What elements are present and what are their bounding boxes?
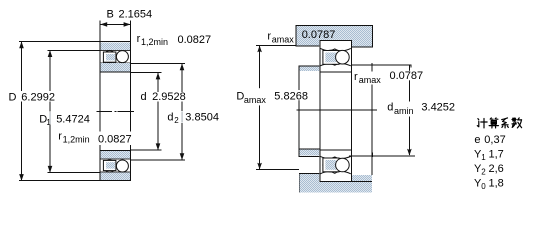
svg-text:5.8268: 5.8268 bbox=[274, 90, 308, 102]
svg-text:d: d bbox=[387, 102, 393, 114]
B arrows bbox=[100, 22, 107, 27]
svg-text:B: B bbox=[107, 9, 114, 21]
svg-text:2.9528: 2.9528 bbox=[152, 91, 186, 103]
label D 6.2992 bbox=[20, 91, 56, 102]
d extension top bbox=[131, 72, 162, 73]
svg-text:r: r bbox=[58, 131, 62, 143]
cage top bbox=[103, 52, 116, 62]
Damax arrows bbox=[257, 46, 262, 53]
Damax extension top bbox=[256, 45, 295, 46]
bore lines right view bbox=[319, 72, 320, 149]
D extension top bbox=[19, 41, 100, 42]
svg-text:6.2992: 6.2992 bbox=[21, 92, 55, 104]
d dimension line bbox=[158, 73, 159, 151]
outer raceway arc bbox=[320, 48, 351, 50]
outer raceway line top bbox=[100, 49, 130, 52]
svg-text:amax: amax bbox=[244, 95, 267, 105]
ball bbox=[336, 50, 350, 64]
cage bottom bbox=[103, 160, 116, 170]
svg-text:amax: amax bbox=[272, 34, 295, 44]
bearing inner-ring bottom shade bbox=[100, 151, 130, 159]
bearing outer-ring top shade bbox=[100, 42, 130, 50]
D extension bottom bbox=[19, 180, 100, 181]
d2 extension bottom bbox=[131, 159, 185, 160]
label Damax 5.8268 bbox=[236, 88, 267, 105]
ball bbox=[323, 158, 337, 172]
svg-text:0.0827: 0.0827 bbox=[178, 34, 212, 46]
shaft shoulder top-left bbox=[299, 67, 319, 72]
svg-text:2: 2 bbox=[481, 167, 486, 176]
bottom section outline bbox=[100, 150, 131, 151]
axis dash-dot left view bbox=[97, 111, 113, 112]
label d 2.9528 bbox=[140, 92, 187, 102]
svg-text:r: r bbox=[137, 33, 141, 45]
D1 arrows bbox=[48, 50, 53, 57]
ball bbox=[336, 158, 350, 172]
ball bottom-left bbox=[104, 160, 116, 172]
B dimension line bbox=[100, 24, 131, 25]
svg-text:d: d bbox=[141, 91, 147, 103]
svg-text:1,2min: 1,2min bbox=[141, 37, 168, 47]
cage bbox=[323, 158, 339, 172]
svg-text:amax: amax bbox=[359, 75, 382, 85]
Damax extension bottom bbox=[256, 169, 299, 170]
shaft surface line bottom right / damin extension bbox=[349, 156, 415, 157]
outer raceway line bottom bbox=[100, 171, 130, 174]
label D1 5.4724 bbox=[45, 112, 91, 125]
svg-text:1,7: 1,7 bbox=[489, 149, 504, 161]
label d2 3.8504 bbox=[167, 111, 219, 123]
svg-text:1: 1 bbox=[481, 153, 486, 162]
svg-text:e: e bbox=[474, 134, 480, 146]
housing bottom block bbox=[299, 174, 320, 193]
D1 extension top bbox=[48, 50, 100, 51]
bearing section top (right view) bbox=[319, 40, 352, 72]
damin arrow bbox=[407, 149, 412, 156]
axis line right view bbox=[296, 110, 376, 111]
bearing section bottom (right view) bbox=[319, 149, 352, 182]
bearing outer-ring bottom shade bbox=[100, 172, 130, 180]
svg-text:D: D bbox=[9, 92, 17, 104]
label damin 3.4252 bbox=[386, 102, 416, 117]
svg-text:1,2min: 1,2min bbox=[63, 135, 90, 145]
svg-text:2: 2 bbox=[174, 116, 179, 125]
table header 计算系数 (vector strokes) bbox=[477, 118, 521, 128]
D1 dimension line bbox=[50, 50, 51, 173]
D arrows bbox=[19, 41, 24, 48]
ball bbox=[323, 50, 337, 64]
svg-text:0.0787: 0.0787 bbox=[302, 29, 336, 41]
svg-text:0,37: 0,37 bbox=[484, 134, 505, 146]
ball top-left bbox=[104, 51, 116, 63]
svg-text:1: 1 bbox=[46, 118, 51, 127]
svg-text:2,6: 2,6 bbox=[489, 163, 504, 175]
svg-text:2.1654: 2.1654 bbox=[119, 9, 153, 21]
svg-text:r: r bbox=[354, 71, 358, 83]
svg-text:5.4724: 5.4724 bbox=[56, 113, 90, 125]
d arrows bbox=[156, 73, 161, 80]
Damax dimension line bbox=[259, 46, 260, 170]
shaft shoulder face line bbox=[298, 66, 299, 157]
svg-text:0.0787: 0.0787 bbox=[390, 70, 424, 82]
shaft surface line top right bbox=[352, 64, 411, 65]
inner raceway line bottom bbox=[100, 157, 130, 160]
svg-text:0.0827: 0.0827 bbox=[98, 133, 132, 145]
D1 extension bottom bbox=[48, 172, 100, 173]
inner raceway arc bbox=[320, 64, 351, 66]
svg-text:r: r bbox=[267, 30, 271, 42]
ball bottom-right bbox=[116, 160, 128, 172]
bearing inner-ring top shade bbox=[100, 63, 130, 72]
svg-text:3.4252: 3.4252 bbox=[421, 102, 455, 114]
shaft shoulder bottom-left bbox=[299, 150, 320, 156]
svg-text:3.8504: 3.8504 bbox=[185, 112, 219, 124]
B extension lines bbox=[100, 20, 101, 41]
d extension bottom bbox=[131, 150, 162, 151]
d2 arrows bbox=[180, 64, 185, 71]
svg-text:0: 0 bbox=[481, 182, 486, 191]
d2 dimension line bbox=[182, 64, 183, 161]
svg-text:d: d bbox=[167, 112, 173, 124]
top section outline bbox=[100, 41, 131, 42]
damin dimension line bbox=[409, 64, 410, 155]
ra leader vertical bbox=[372, 64, 373, 175]
label r1,2min bottom bbox=[57, 132, 132, 146]
svg-text:amin: amin bbox=[394, 106, 414, 116]
d2 extension top bbox=[131, 63, 185, 64]
bore line left bbox=[100, 72, 101, 149]
outer raceway arc bbox=[320, 171, 351, 173]
svg-text:1,8: 1,8 bbox=[489, 178, 504, 190]
inner raceway line top bbox=[100, 61, 130, 64]
cage bbox=[323, 51, 339, 65]
ball top-right bbox=[116, 51, 128, 63]
housing top block bbox=[296, 26, 373, 46]
inner raceway arc bbox=[320, 156, 351, 158]
bore line right bbox=[130, 72, 131, 149]
RIGHT VIEW bbox=[295, 25, 376, 193]
label ra max middle bbox=[353, 72, 384, 85]
D dimension line bbox=[21, 41, 22, 181]
